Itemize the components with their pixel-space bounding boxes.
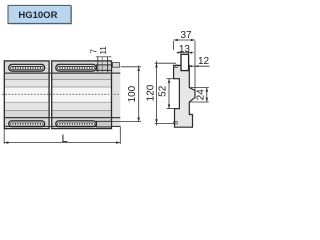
svg-text:37: 37 [180,30,192,41]
svg-text:24: 24 [196,89,207,101]
svg-text:52: 52 [157,85,168,97]
svg-text:13: 13 [179,44,191,55]
svg-text:L: L [61,133,67,145]
svg-text:100: 100 [127,85,138,102]
svg-text:120: 120 [145,84,156,101]
svg-text:6: 6 [171,121,180,125]
svg-text:6: 6 [172,64,181,68]
svg-text:11: 11 [99,46,108,55]
svg-text:12: 12 [198,56,210,67]
svg-text:7: 7 [89,49,98,54]
svg-text:HG10OR: HG10OR [18,10,57,21]
